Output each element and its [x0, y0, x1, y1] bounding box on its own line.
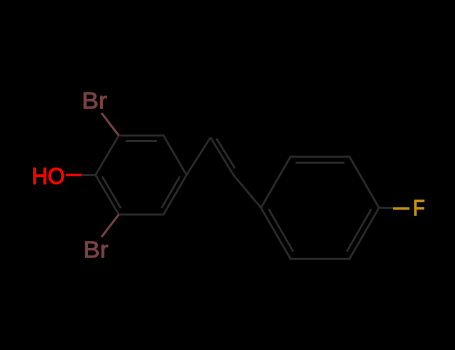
svg-text:Br: Br: [83, 237, 108, 263]
svg-text:F: F: [413, 195, 425, 220]
svg-text:HO: HO: [32, 163, 65, 189]
svg-text:Br: Br: [82, 88, 107, 114]
